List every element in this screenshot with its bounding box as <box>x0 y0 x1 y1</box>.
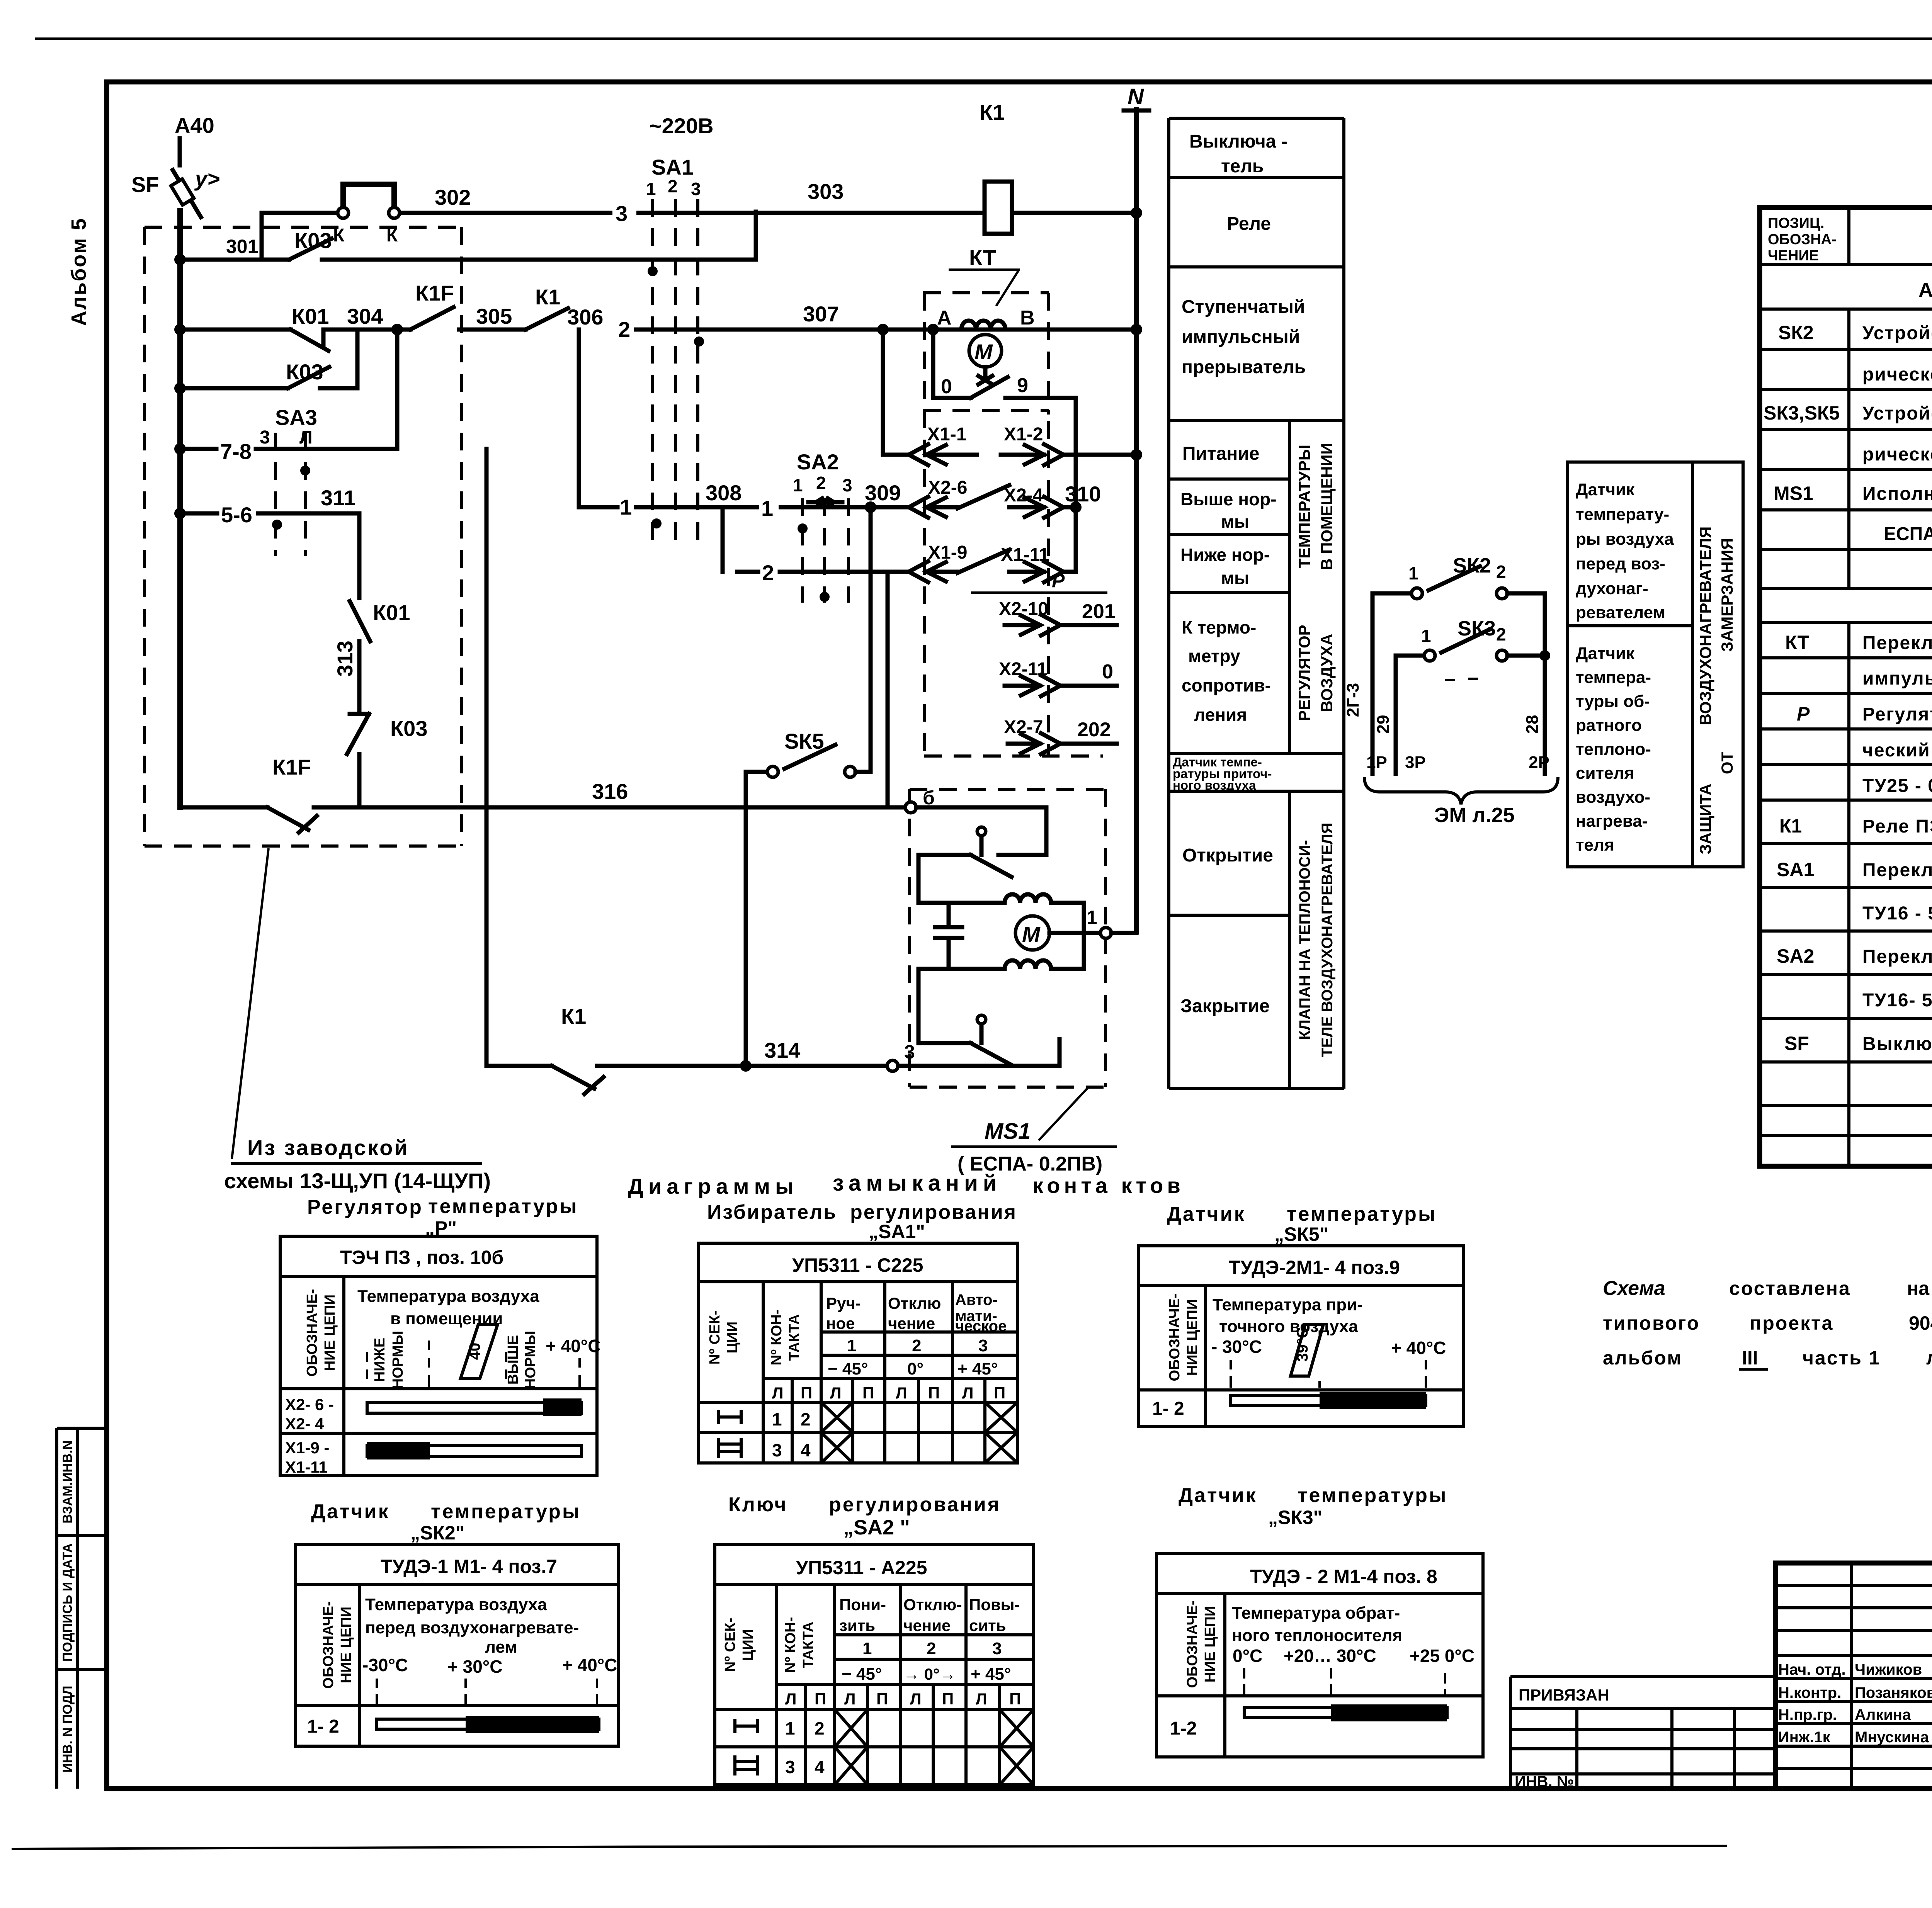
KT contact 0-9 <box>933 330 1076 398</box>
circuit breaker SF <box>131 167 220 217</box>
svg-text:воздухо-: воздухо- <box>1576 788 1650 807</box>
svg-text:307: 307 <box>803 302 839 326</box>
selector switch SA2 <box>793 450 852 603</box>
row label К термометру сопротивления <box>1182 617 1271 725</box>
svg-text:Повы-: Повы- <box>969 1595 1020 1614</box>
SA2 data row I <box>735 1709 1034 1747</box>
svg-text:ПОЗИЦ.: ПОЗИЦ. <box>1768 215 1824 231</box>
parts list grid <box>1760 207 1932 1166</box>
svg-text:Выключа -: Выключа - <box>1189 131 1287 152</box>
svg-text:Р: Р <box>1052 570 1065 591</box>
svg-text:А40: А40 <box>175 113 214 138</box>
actuator MS1 dashed box <box>910 789 1105 1087</box>
svg-text:Датчик: Датчик <box>1179 1484 1257 1507</box>
SA1 data row I <box>719 1402 1017 1432</box>
svg-text:SF: SF <box>1784 1033 1809 1054</box>
svg-text:Закрытие: Закрытие <box>1180 996 1270 1016</box>
svg-text:1: 1 <box>620 495 632 519</box>
svg-text:Х1-9 -: Х1-9 - <box>285 1439 329 1457</box>
MS1 top path <box>916 807 1046 855</box>
KT winding <box>937 307 1035 330</box>
regulator P table title <box>307 1195 578 1239</box>
svg-text:Х1-11: Х1-11 <box>285 1458 328 1476</box>
svg-text:0: 0 <box>1102 661 1113 683</box>
svg-text:проекта: проекта <box>1750 1312 1833 1334</box>
svg-text:28: 28 <box>1523 715 1542 734</box>
svg-text:29: 29 <box>1374 715 1393 734</box>
svg-text:Устройство терморегулирующее: Устройство терморегулирующее элект- <box>1862 403 1932 424</box>
wire 314 <box>486 1038 887 1066</box>
svg-text:ТУДЭ - 2 М1-4 поз. 8: ТУДЭ - 2 М1-4 поз. 8 <box>1250 1566 1437 1587</box>
svg-text:Избиратель: Избиратель <box>707 1201 837 1223</box>
row label Реле <box>1227 214 1271 234</box>
svg-text:ТУДЭ-1 М1- 4 поз.7: ТУДЭ-1 М1- 4 поз.7 <box>381 1556 557 1577</box>
svg-text:ЦИИ: ЦИИ <box>740 1629 756 1661</box>
svg-text:регулирования: регулирования <box>850 1201 1017 1223</box>
svg-text:Алкина: Алкина <box>1855 1706 1911 1723</box>
pulse switch KT label <box>949 245 1020 306</box>
svg-text:М: М <box>1022 922 1041 946</box>
svg-text:КЛАПАН НА ТЕПЛОНОСИ-: КЛАПАН НА ТЕПЛОНОСИ- <box>1296 840 1313 1040</box>
svg-text:ТУ25 - 02. 200353 - 84: ТУ25 - 02. 200353 - 84 <box>1862 776 1932 796</box>
relay contact K01 vertical <box>350 600 410 714</box>
svg-text:П: П <box>876 1690 888 1708</box>
selector SA1 table <box>699 1243 1017 1463</box>
sensor SK3 table <box>1156 1554 1483 1757</box>
wire A40 drop <box>178 138 182 165</box>
svg-text:Реле: Реле <box>1227 214 1271 234</box>
svg-text:туры об-: туры об- <box>1576 692 1650 711</box>
svg-text:3: 3 <box>842 475 852 495</box>
wire 301 <box>180 236 289 260</box>
svg-text:4: 4 <box>801 1440 811 1460</box>
svg-text:SF: SF <box>131 172 159 197</box>
svg-text:В: В <box>1020 307 1035 329</box>
svg-text:ВЫШЕ: ВЫШЕ <box>505 1335 521 1385</box>
svg-text:Переключатель УП5311 - А2: Переключатель УП5311 - А225 <box>1862 946 1932 967</box>
sensor description table <box>1568 462 1743 867</box>
MS1 terminal 1 wire <box>1049 907 1136 938</box>
svg-text:ТАКТА: ТАКТА <box>800 1622 816 1668</box>
svg-text:2: 2 <box>762 561 774 585</box>
svg-text:ОБОЗНАЧЕ-: ОБОЗНАЧЕ- <box>304 1289 320 1377</box>
sensor SK5 table <box>1138 1246 1463 1426</box>
svg-text:2: 2 <box>1496 562 1506 582</box>
key SA2 table title <box>728 1493 1001 1539</box>
node 304 junction <box>391 324 403 335</box>
svg-text:Ключ: Ключ <box>728 1493 787 1516</box>
relay contact K1 aux <box>526 285 568 330</box>
riser bus1 to SK5 <box>869 507 873 772</box>
svg-text:точного воздуха: точного воздуха <box>1219 1317 1358 1336</box>
svg-text:39°С: 39°С <box>1294 1327 1311 1361</box>
wire 316 <box>314 779 907 807</box>
svg-text:SА3: SА3 <box>275 405 317 430</box>
svg-text:К1: К1 <box>1779 815 1802 837</box>
svg-text:духонаг-: духонаг- <box>1576 579 1648 598</box>
svg-text:Х2-4: Х2-4 <box>1004 485 1043 506</box>
SA1 data row II <box>719 1432 1017 1463</box>
svg-text:К01: К01 <box>373 600 410 625</box>
svg-text:К1F: К1F <box>272 755 311 779</box>
svg-text:Руч-: Руч- <box>826 1294 861 1312</box>
svg-text:на: на <box>1907 1278 1930 1299</box>
cell text Датчик температуры обратного теплоносителя воздухонагревателя <box>1576 644 1651 855</box>
svg-text:Отклю-: Отклю- <box>903 1595 962 1614</box>
parts list header <box>1768 215 1932 264</box>
svg-text:тель: тель <box>1221 156 1264 177</box>
svg-text:Отклю: Отклю <box>888 1294 941 1312</box>
svg-text:Л: Л <box>785 1690 796 1708</box>
svg-text:~220В: ~220В <box>649 114 714 138</box>
regulator P row X1-9 X1-11 <box>285 1439 582 1476</box>
svg-text:НИЕ ЦЕПИ: НИЕ ЦЕПИ <box>338 1607 354 1683</box>
svg-text:1: 1 <box>847 1336 856 1355</box>
sensor SK3 table title <box>1179 1484 1447 1528</box>
svg-text:МS1: МS1 <box>1774 483 1813 504</box>
svg-text:SА1: SА1 <box>651 155 694 179</box>
svg-text:сопротив-: сопротив- <box>1182 675 1271 695</box>
svg-text:+ 40°С: + 40°С <box>546 1336 600 1356</box>
svg-text:ОБОЗНА-: ОБОЗНА- <box>1768 231 1837 248</box>
svg-text:302: 302 <box>435 185 471 209</box>
svg-text:3: 3 <box>785 1757 795 1777</box>
MS1 designation label <box>951 1087 1117 1175</box>
svg-text:ТЕЛЕ ВОЗДУХОНАГРЕВАТЕЛЯ: ТЕЛЕ ВОЗДУХОНАГРЕВАТЕЛЯ <box>1319 822 1336 1057</box>
svg-text:Выключатель А- 63 М~ 220 В: Выключатель А- 63 М~ 220 В Ун 0,5А <box>1862 1034 1932 1054</box>
svg-text:Ступенчатый: Ступенчатый <box>1182 297 1305 317</box>
svg-text:НИЕ ЦЕПИ: НИЕ ЦЕПИ <box>1184 1299 1201 1376</box>
node supply tap <box>877 324 889 335</box>
svg-text:Х1-9: Х1-9 <box>928 542 967 563</box>
svg-text:1: 1 <box>772 1409 782 1429</box>
row SK3 type <box>1862 444 1932 467</box>
riser 316 to 314 <box>485 449 489 1066</box>
MS1 lower limit contact <box>971 1015 1060 1066</box>
svg-text:П: П <box>801 1384 812 1402</box>
svg-text:ОБОЗНАЧЕ-: ОБОЗНАЧЕ- <box>320 1601 337 1689</box>
svg-text:Х1-2: Х1-2 <box>1004 424 1043 445</box>
svg-text:„SА1": „SА1" <box>869 1221 925 1242</box>
svg-text:Чижиков: Чижиков <box>1855 1661 1922 1678</box>
svg-text:ЗАМЕРЗАНИЯ: ЗАМЕРЗАНИЯ <box>1718 538 1736 652</box>
row ESPA <box>1884 520 1932 553</box>
svg-text:МS1: МS1 <box>985 1119 1031 1144</box>
svg-text:часть 1: часть 1 <box>1803 1347 1881 1369</box>
svg-text:3Р: 3Р <box>1405 753 1426 772</box>
row SF <box>1784 1033 1932 1055</box>
svg-text:Nº СЕК-: Nº СЕК- <box>707 1310 723 1365</box>
MS1 upper limit contact <box>918 827 1012 877</box>
svg-text:0: 0 <box>941 375 952 398</box>
MS1 lower winding <box>918 933 1084 969</box>
svg-text:П: П <box>942 1690 954 1708</box>
svg-text:рическое ТУДЭ-2М1-4 ТУ25- 0: рическое ТУДЭ-2М1-4 ТУ25- 02. 10.74 -75 <box>1862 444 1932 465</box>
relay contact K03 lower <box>180 330 357 388</box>
svg-text:чение: чение <box>903 1616 951 1634</box>
svg-text:Питание: Питание <box>1182 443 1259 464</box>
node row2 junction <box>174 324 186 335</box>
row KT <box>1785 632 1932 653</box>
svg-text:ВЗАМ.ИНВ.N: ВЗАМ.ИНВ.N <box>60 1440 75 1523</box>
svg-text:1- 2: 1- 2 <box>1152 1398 1184 1419</box>
svg-text:308: 308 <box>706 481 742 505</box>
node N bus3 <box>1131 207 1142 219</box>
row P <box>1797 703 1932 725</box>
side label Клапан на теплоносителе воздухонагревателя <box>1296 822 1336 1057</box>
svg-text:0°С: 0°С <box>1233 1646 1262 1666</box>
svg-text:Датчик: Датчик <box>1167 1203 1246 1225</box>
title block frame <box>1776 1563 1932 1789</box>
svg-text:чение: чение <box>888 1314 935 1332</box>
svg-text:Схема: Схема <box>1603 1277 1665 1300</box>
svg-text:Датчик: Датчик <box>1576 480 1635 499</box>
svg-text:регулирования: регулирования <box>829 1493 1001 1516</box>
thermal sensor contact SK5 <box>746 729 871 777</box>
terminal 3 <box>887 1041 1060 1071</box>
svg-text:теля: теля <box>1576 836 1614 855</box>
diagrams main title <box>628 1171 1184 1198</box>
svg-text:НИЖЕ: НИЖЕ <box>372 1338 388 1382</box>
relay contact K01 <box>291 304 329 351</box>
bus wire 302/303 <box>400 179 1136 228</box>
svg-text:3: 3 <box>691 179 701 199</box>
row SA1 TU <box>1862 903 1932 926</box>
row label Питание <box>1182 443 1259 464</box>
connector dashed line X2 <box>1047 421 1050 756</box>
svg-text:+ 45°: + 45° <box>971 1665 1011 1684</box>
selector SA1 table title <box>707 1201 1017 1242</box>
svg-text:3: 3 <box>260 427 270 448</box>
svg-text:+20… 30°С: +20… 30°С <box>1284 1646 1376 1666</box>
svg-text:Устройство терморегулирующее: Устройство терморегулирующее элект- <box>1862 323 1932 343</box>
wire row2 K01..306 <box>180 328 291 332</box>
svg-text:Р: Р <box>1797 703 1810 725</box>
svg-text:1- 2: 1- 2 <box>307 1716 339 1737</box>
svg-text:Позанякова: Позанякова <box>1855 1684 1932 1701</box>
svg-text:ЦИИ: ЦИИ <box>724 1322 741 1353</box>
wire 7-8 <box>180 330 397 464</box>
svg-text:Из заводской: Из заводской <box>247 1135 409 1160</box>
supply label ~220V <box>649 114 714 138</box>
svg-text:ПРИВЯЗАН: ПРИВЯЗАН <box>1519 1686 1609 1704</box>
svg-text:+ 40°С: + 40°С <box>1391 1338 1446 1358</box>
feeder label A40 <box>175 113 214 138</box>
svg-text:ревателем: ревателем <box>1576 603 1665 622</box>
svg-text:Х2-6: Х2-6 <box>928 477 967 498</box>
svg-text:составлена: составлена <box>1729 1278 1851 1299</box>
row MS1 <box>1774 483 1932 504</box>
parts list table frame <box>1760 207 1932 1166</box>
svg-text:замыканий: замыканий <box>833 1171 1002 1196</box>
svg-text:SА1: SА1 <box>1777 859 1814 880</box>
svg-text:1: 1 <box>785 1718 795 1738</box>
svg-text:ОТ: ОТ <box>1718 751 1736 774</box>
KT dashed box <box>923 293 1049 415</box>
cable brace ЭМ л.25 <box>1364 777 1558 827</box>
svg-text:Нач. отд.: Нач. отд. <box>1778 1661 1846 1678</box>
svg-text:К: К <box>333 225 345 246</box>
svg-text:Открытие: Открытие <box>1182 845 1273 866</box>
svg-text:2Г-3: 2Г-3 <box>1344 683 1362 717</box>
row label Датчик температуры приточного воздуха <box>1173 755 1272 792</box>
terminal 6 <box>905 787 935 813</box>
svg-text:П: П <box>862 1384 874 1402</box>
svg-text:4: 4 <box>815 1757 825 1777</box>
paper bottom edge <box>12 1846 1727 1849</box>
relay contact K1F upper <box>410 281 454 330</box>
row SA2 TU <box>1862 990 1932 1013</box>
svg-text:ОБОЗНАЧЕ-: ОБОЗНАЧЕ- <box>1184 1600 1201 1688</box>
svg-text:+ 30°С: + 30°С <box>447 1657 502 1677</box>
svg-text:П: П <box>815 1690 826 1708</box>
note text: Из заводской схемы <box>224 1135 491 1193</box>
svg-text:-30°С: -30°С <box>362 1655 408 1675</box>
basis note text <box>1603 1277 1932 1369</box>
svg-text:SК2: SК2 <box>1453 554 1491 577</box>
svg-text:SК2: SК2 <box>1778 322 1814 343</box>
svg-text:ЕСПА - 02 ПВ (НРБ): ЕСПА - 02 ПВ (НРБ) <box>1884 524 1932 544</box>
svg-text:ления: ления <box>1194 705 1247 725</box>
svg-text:сителя: сителя <box>1576 764 1634 783</box>
svg-text:2: 2 <box>912 1336 921 1355</box>
svg-text:Л: Л <box>896 1384 907 1402</box>
wire 1 / 308 <box>579 481 907 572</box>
sensor SK2 table <box>296 1544 618 1746</box>
svg-text:Л: Л <box>962 1384 973 1402</box>
svg-text:Температура при-: Температура при- <box>1213 1295 1363 1314</box>
svg-text:К03: К03 <box>390 716 427 741</box>
row label Закрытие <box>1180 996 1270 1016</box>
svg-text:зить: зить <box>839 1616 875 1634</box>
svg-text:SА2: SА2 <box>797 450 839 474</box>
svg-text:М: М <box>975 340 993 364</box>
svg-text:2Р: 2Р <box>1529 753 1549 772</box>
svg-text:1: 1 <box>761 496 773 520</box>
svg-text:311: 311 <box>321 486 355 510</box>
row label Ниже нормы <box>1180 545 1270 588</box>
svg-text:1: 1 <box>793 475 803 495</box>
wire 305 <box>459 304 526 330</box>
capacitor C <box>935 903 962 969</box>
svg-text:КТ: КТ <box>969 245 996 270</box>
svg-text:листы 3…5.: листы 3…5. <box>1926 1347 1932 1369</box>
svg-text:ческое: ческое <box>955 1318 1007 1335</box>
motor M of KT <box>969 335 1002 384</box>
svg-text:темпера-: темпера- <box>1576 668 1651 687</box>
svg-text:Nº КОН-: Nº КОН- <box>782 1617 799 1673</box>
svg-text:3: 3 <box>992 1639 1002 1658</box>
svg-text:3: 3 <box>772 1440 782 1460</box>
node 5-6 junction <box>174 508 186 519</box>
svg-text:мы: мы <box>1221 511 1249 532</box>
svg-text:УП5311 - А225: УП5311 - А225 <box>796 1557 927 1578</box>
svg-text:НОРМЫ: НОРМЫ <box>390 1331 406 1389</box>
svg-text:ТАКТА: ТАКТА <box>786 1314 803 1361</box>
svg-text:Н.контр.: Н.контр. <box>1778 1684 1841 1701</box>
svg-text:Л: Л <box>844 1690 855 1708</box>
svg-text:Х2- 6 -: Х2- 6 - <box>285 1395 334 1414</box>
connector region bottom dashed <box>924 754 1103 758</box>
svg-text:Датчик: Датчик <box>311 1500 390 1523</box>
svg-text:Л: Л <box>830 1384 841 1402</box>
svg-text:К01: К01 <box>292 304 329 328</box>
node 7-8 junction <box>174 443 186 455</box>
svg-text:ного воздуха: ного воздуха <box>1173 778 1256 792</box>
svg-text:Авто-: Авто- <box>955 1291 998 1308</box>
wire 304 <box>323 304 410 330</box>
svg-text:2: 2 <box>927 1639 936 1658</box>
pushbutton contact K-K <box>333 184 400 246</box>
svg-text:Температура воздуха: Температура воздуха <box>365 1595 547 1614</box>
svg-text:2: 2 <box>801 1409 811 1429</box>
wire 313 <box>333 641 357 676</box>
svg-text:РЕГУЛЯТОР: РЕГУЛЯТОР <box>1295 625 1313 721</box>
svg-text:Выше нор-: Выше нор- <box>1180 489 1277 509</box>
svg-text:схемы 13-Щ,УП (14-ЩУП): схемы 13-Щ,УП (14-ЩУП) <box>224 1169 491 1193</box>
svg-text:Температура воздуха: Температура воздуха <box>357 1287 539 1306</box>
row P type <box>1862 740 1932 761</box>
svg-text:ВОЗДУХА: ВОЗДУХА <box>1318 634 1336 712</box>
wire 301 to SA1 riser <box>322 212 756 260</box>
svg-text:температуры: температуры <box>428 1195 578 1218</box>
svg-text:Х2-7: Х2-7 <box>1004 717 1043 737</box>
regulator net P <box>971 570 1107 593</box>
MS1 lower leg <box>918 969 971 1043</box>
row label Ступенчатый импульсный прерыватель <box>1182 297 1306 377</box>
svg-text:ЧЕНИЕ: ЧЕНИЕ <box>1768 248 1819 264</box>
sensor contact SK2 <box>1372 554 1545 774</box>
wire 302 branch drop <box>262 213 338 260</box>
svg-text:7-8: 7-8 <box>220 439 252 464</box>
svg-text:0°: 0° <box>907 1359 923 1378</box>
factory unit dashed box <box>145 227 462 846</box>
svg-text:рическое ТУДЭ-1 М1-4 ТУ25-: рическое ТУДЭ-1 М1-4 ТУ25- 02. 1074 - 75 <box>1862 364 1932 385</box>
wire 306 with riser <box>567 305 636 507</box>
svg-text:у>: у> <box>194 167 220 191</box>
svg-text:313: 313 <box>333 641 357 676</box>
svg-text:УП5311 - С225: УП5311 - С225 <box>792 1254 923 1276</box>
relay contact K1 bottom <box>552 1004 604 1094</box>
svg-text:ТЭЧ ПЗ , поз. 10б: ТЭЧ ПЗ , поз. 10б <box>340 1247 503 1268</box>
svg-text:316: 316 <box>592 779 628 804</box>
sensor SK2 table title <box>311 1500 581 1544</box>
svg-text:Переключатель регулируем: Переключатель регулируемый <box>1862 633 1932 653</box>
svg-text:„SА2 ": „SА2 " <box>843 1516 910 1539</box>
svg-text:→ 0°→: → 0°→ <box>903 1665 956 1683</box>
svg-text:П: П <box>994 1384 1005 1402</box>
svg-text:В ПОМЕЩЕНИИ: В ПОМЕЩЕНИИ <box>1318 443 1336 570</box>
svg-text:Л: Л <box>910 1690 921 1708</box>
svg-text:ТУДЭ-2М1- 4 поз.9: ТУДЭ-2М1- 4 поз.9 <box>1229 1257 1400 1278</box>
connector pin X1-9 / X1-11 row 2 <box>909 542 1076 582</box>
wire 307 <box>636 302 1136 330</box>
svg-text:- 30°С: - 30°С <box>1211 1337 1262 1357</box>
sensor SK5 table title <box>1167 1203 1437 1245</box>
MS1 upper winding <box>1005 894 1084 917</box>
svg-text:2: 2 <box>1496 624 1506 644</box>
connector pin X2-10 net 201 <box>999 599 1117 635</box>
svg-text:304: 304 <box>347 304 383 328</box>
svg-text:НИЕ ЦЕПИ: НИЕ ЦЕПИ <box>1202 1606 1218 1682</box>
supply row riser <box>883 330 908 455</box>
svg-text:− 45°: − 45° <box>828 1359 868 1378</box>
title block grid <box>1776 1563 1932 1789</box>
connector pin X2-6 / X2-4 row 1 <box>871 477 1101 518</box>
svg-text:К термо-: К термо- <box>1182 617 1256 637</box>
side label Регулятор температуры воздуха в помещении <box>1295 443 1336 721</box>
node 309 junction <box>865 501 876 513</box>
